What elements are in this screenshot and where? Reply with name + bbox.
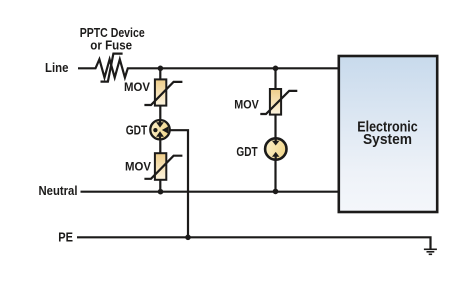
svg-text:or Fuse: or Fuse xyxy=(90,37,132,52)
svg-text:System: System xyxy=(363,131,412,148)
svg-text:PE: PE xyxy=(58,229,73,244)
svg-text:MOV: MOV xyxy=(234,97,259,111)
svg-text:GDT: GDT xyxy=(236,145,257,159)
svg-text:Line: Line xyxy=(45,60,69,75)
svg-text:MOV: MOV xyxy=(124,80,150,94)
svg-text:Neutral: Neutral xyxy=(39,184,78,198)
svg-text:MOV: MOV xyxy=(125,159,151,173)
svg-text:GDT: GDT xyxy=(126,123,148,137)
